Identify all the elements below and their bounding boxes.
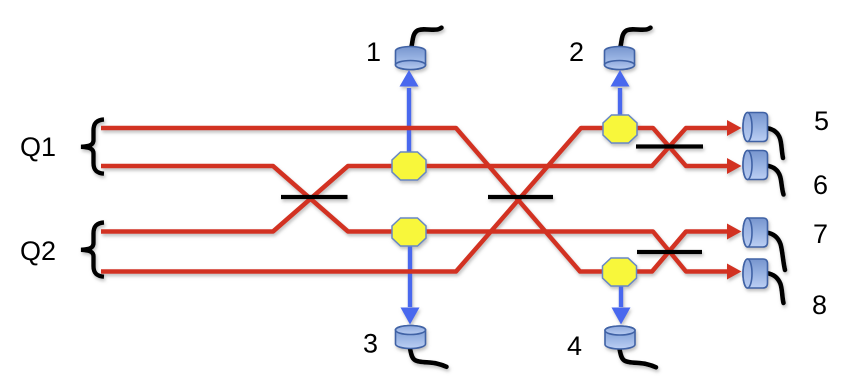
beam splitter bar BS2 (central)	[488, 195, 553, 199]
detector 4 (cylinder opening up)	[605, 326, 635, 349]
cable of detector 2	[621, 28, 651, 47]
wire: input B (Q1 lower) through BS1 to detector 8	[101, 166, 729, 272]
cable of detector 1	[412, 28, 442, 47]
detector 8 (cylinder opening left)	[743, 259, 768, 288]
arrowhead to detector 7	[727, 224, 742, 240]
cable of detector 6	[767, 166, 784, 195]
brace for Q2	[81, 223, 104, 277]
wire: input D (Q2 lower) through central cross to detector 6	[101, 128, 729, 272]
wire: input A top (Q1 upper) through central cross to detector 7	[101, 128, 729, 272]
beam splitter bar BS1	[281, 195, 348, 199]
svg-text:Q1: Q1	[20, 132, 56, 162]
detector 5 (cylinder opening left)	[743, 113, 768, 142]
phase shifter octagon P1	[392, 152, 426, 180]
beam splitter bar BS3 (top right)	[636, 144, 703, 148]
blue arrow to detector 3	[401, 246, 420, 325]
blue arrow to detector 4	[612, 286, 631, 325]
cable of detector 3	[410, 349, 447, 367]
svg-text:8: 8	[812, 290, 827, 320]
blue arrow to detector 2	[611, 70, 630, 115]
svg-text:7: 7	[813, 219, 828, 249]
detector 2 (cylinder opening down)	[605, 47, 635, 70]
arrowhead to detector 8	[727, 264, 742, 280]
svg-text:6: 6	[813, 170, 828, 200]
cable of detector 5	[767, 128, 784, 158]
svg-text:3: 3	[363, 329, 378, 359]
svg-text:2: 2	[569, 37, 584, 67]
phase shifter octagon P3	[392, 218, 426, 246]
blue arrow to detector 1	[400, 70, 419, 152]
cable of detector 4	[620, 349, 657, 367]
beam splitter bar BS4 (bottom right)	[637, 250, 702, 254]
svg-text:Q2: Q2	[20, 236, 56, 266]
svg-text:1: 1	[366, 37, 381, 67]
arrowhead to detector 6	[727, 158, 742, 174]
phase shifter octagon P2	[603, 115, 637, 143]
arrowhead to detector 5	[727, 120, 742, 136]
svg-text:4: 4	[567, 331, 582, 361]
detector 3 (cylinder opening up)	[396, 326, 426, 349]
wire: input C (Q2 upper) through BS1 to detector 5	[101, 128, 729, 232]
detector 7 (cylinder opening left)	[743, 218, 768, 247]
svg-text:5: 5	[814, 106, 829, 136]
cable of detector 8	[767, 273, 784, 303]
detector 6 (cylinder opening left)	[743, 151, 768, 180]
phase shifter octagon P4	[603, 258, 637, 286]
cable of detector 7	[767, 233, 786, 271]
brace for Q1	[81, 120, 104, 174]
detector 1 (cylinder opening down)	[396, 47, 426, 70]
